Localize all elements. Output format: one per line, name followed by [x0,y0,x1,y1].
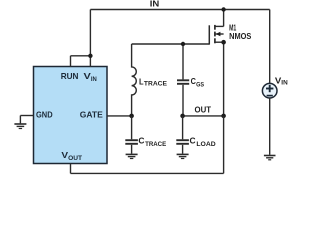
svg-text:OUT: OUT [68,155,82,162]
source riser [223,42,225,116]
inductor LTRACE [132,44,137,116]
capacitor CLOAD [176,116,189,154]
svg-text:LOAD: LOAD [196,141,216,148]
svg-text:IN: IN [281,80,288,87]
junction dot drain on IN rail [221,7,225,11]
body arrow [216,32,221,36]
svg-text:NMOS: NMOS [229,31,252,41]
junction dot inductor/CTRACE [129,114,134,119]
wire RUN riser [70,56,72,67]
drain stub [215,25,224,27]
wire GATE lead to LTRACE node [107,115,132,117]
wire source to ground [269,98,271,155]
pin label VOUT [61,150,82,162]
svg-text:C: C [191,76,196,86]
voltage source VIN [262,83,277,98]
wire left riser to VIN pin [89,10,91,68]
svg-text:IN: IN [91,76,97,83]
ground CLOAD [177,154,189,158]
ground VIN source [264,156,276,160]
body stub [215,33,224,35]
junction dot CGS top [181,42,185,46]
svg-text:TRACE: TRACE [144,80,167,87]
wire bottom rail [71,172,224,174]
source stub [215,41,224,43]
capacitor CTRACE [125,116,138,154]
drain riser [223,10,225,27]
svg-text:IN: IN [150,0,160,9]
wire OUT rail [183,115,224,117]
pin label VIN [84,71,98,83]
transistor M1 NMOS [209,10,223,116]
wire VOUT lead [70,164,72,174]
wire IN rail [90,9,269,11]
wire GND lead [20,115,33,117]
wire OUT riser down [223,116,225,173]
wire gate net [132,43,210,45]
label CGS [191,76,205,88]
svg-text:TRACE: TRACE [145,141,166,148]
junction dot RUN/VIN [88,54,92,58]
capacitor CGS [177,44,189,116]
channel dash top [214,25,216,30]
svg-text:GS: GS [196,81,204,88]
ground GND pin [14,116,26,129]
wire jog to RUN [71,55,91,57]
junction dot body-source [221,40,226,45]
svg-text:C: C [138,136,144,146]
svg-text:OUT: OUT [195,104,212,114]
svg-text:GND: GND [36,110,53,120]
channel dash bottom [214,38,216,43]
gate bar [208,25,210,44]
LDO block U1 [34,67,108,164]
junction dot CGS/CLOAD bottom [180,114,185,119]
label LTRACE [139,76,167,87]
svg-text:C: C [190,136,196,146]
junction dot OUT corner [221,114,226,119]
wire right riser [269,10,271,84]
channel dash middle [214,32,216,37]
label CTRACE [138,136,166,148]
label CLOAD [190,136,217,148]
svg-text:RUN: RUN [61,71,79,81]
svg-text:GATE: GATE [80,110,103,120]
label VIN source [275,75,288,86]
ground CTRACE [126,154,138,158]
